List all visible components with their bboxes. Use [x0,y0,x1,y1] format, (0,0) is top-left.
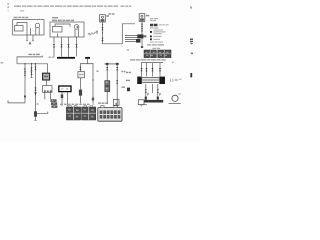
legend text block [150,19,158,21]
ladder lower wire b [152,84,154,93]
ladder bottom note [141,104,147,106]
note near junction block [127,49,129,50]
Name annotation [88,32,98,35]
bottom label row [60,103,94,105]
ladder wire b [145,63,147,77]
legend footer [150,41,164,43]
T1 wire right [92,66,94,104]
page margin marks top-left [7,3,8,11]
splice bar S1 [57,57,75,59]
connector chain [50,99,57,108]
connector note right of ladder [170,79,181,82]
wire note on V3 [37,103,39,104]
margin dark square [127,88,130,92]
callout leg 2 [67,92,69,107]
ladder lower wire c [157,84,159,100]
right margin mark 3 [191,53,193,55]
legend line [150,27,158,29]
T2 wire left [106,65,108,103]
starter switch box K2 labels [52,18,74,21]
plug on V3 [34,111,37,116]
node A label [29,42,31,45]
dash under title [20,10,24,12]
switch K2 contact circle [74,25,79,37]
legend bullet 1 [150,30,166,34]
legend bold heading [150,24,158,26]
wire V1 [8,64,26,103]
ladder pin label a [148,93,150,95]
relay block left terminal [137,77,142,84]
ladder bottom bar [141,100,163,103]
ladder wire a [140,63,142,77]
wire V2 [30,64,32,78]
ladder wire plug a [145,97,147,100]
connector on F1 wire lower [101,38,103,41]
connector block C [98,106,122,122]
wire leg 1 of K2 [53,37,55,56]
T1 wire left [79,66,81,104]
wire leg 4 of K2 [75,37,77,56]
ladder pin label b [160,93,162,95]
junction block J1 housings [136,34,146,42]
callout box CB [59,86,71,92]
legend heading side note [159,24,169,26]
splice label [49,56,55,58]
legend bullet 2 [150,36,162,38]
margin label left of ladder 2 [126,79,130,81]
starter switch box K2 [50,22,84,37]
T2 connector stack [105,81,110,92]
right margin mark 4 [190,73,192,77]
wire from F2 [141,22,143,48]
connector on F2 wire upper [141,24,143,27]
T1 plug [79,90,82,96]
fuse F2 [139,14,145,22]
ignition relay box K1 label [14,17,29,19]
relay ladder top bar [141,62,163,64]
ladder wire plug b [157,97,159,100]
T2 bulb left [106,63,109,65]
T2 wire right [116,65,118,107]
connector photo B [82,105,96,120]
wire V3 [34,64,36,121]
small box E [138,100,144,107]
bus line upper [17,56,42,64]
relay block right terminal [159,77,165,84]
left margin wire label [1,62,4,63]
wire below R2 [46,80,48,86]
wire label right of T2 b [122,86,126,88]
legend bullet 3 [150,38,160,40]
lamp unit T1 top bar [80,59,94,66]
ladder wire d [159,63,161,77]
caption line under photos [130,59,167,61]
wires from pin box [45,92,51,99]
margin label left of ladder 1 [126,71,131,73]
splice bar S2 [85,57,90,59]
lamp unit T2 top bar [105,63,120,65]
connector on F2 wire lower [141,28,143,31]
relay R2 dark box [43,73,50,80]
fuse F2 label [146,15,149,17]
left bus label text [29,53,41,55]
wire label near F1 [96,30,98,32]
ladder wire c [151,63,153,77]
branch wire from V3 [36,112,48,114]
connector on F1 wire upper [101,27,103,30]
fuse F1 [100,15,106,22]
small note text [109,13,115,15]
ignition relay box K1 [13,20,44,35]
photo caption 1 [147,44,165,46]
small box D [113,100,119,106]
motor M1 [169,94,182,104]
wire from F1 [102,22,135,44]
pin box P [43,86,52,93]
T1 component box [78,72,85,78]
relay K1 pins below [26,35,34,41]
wire leg 2 of K2 [60,37,62,57]
relay block stripes [142,78,160,83]
T2 bulb right [116,63,119,65]
fuse F1 label [106,15,109,17]
wire end tick [141,46,143,48]
right margin mark 1 [190,6,192,8]
right margin mark 2 [190,39,193,45]
wire V4 [47,64,49,73]
label above block C [98,102,108,104]
caption ref speck [172,62,174,63]
ladder lower wire a [145,84,147,100]
bus junction dots [24,63,36,64]
wire label right of T2 a [122,71,126,73]
connector photo P2 [158,50,171,58]
connector photo P1 [144,50,156,58]
bus line lower [17,63,48,65]
relay K1 coil circle [35,23,39,35]
wire label near T1 [97,70,99,72]
photo caption 2 [153,47,161,49]
junction block J1 stripes [125,36,140,42]
title text [14,5,131,7]
callout leg 1 [61,92,63,107]
wire leg 3 of K2 [67,37,69,57]
connector photo A [66,105,80,120]
